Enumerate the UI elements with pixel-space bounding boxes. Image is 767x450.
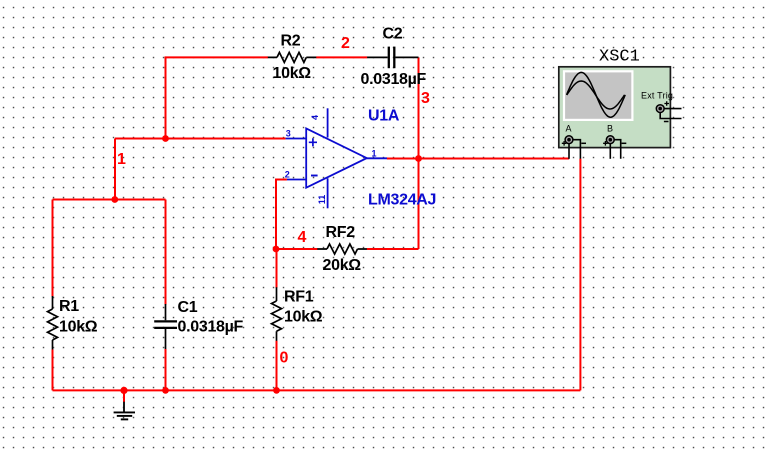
svg-text:C1: C1 bbox=[178, 299, 198, 316]
svg-text:10kΩ: 10kΩ bbox=[59, 319, 98, 336]
svg-text:2: 2 bbox=[285, 170, 290, 180]
wire R1 bottom bbox=[52, 350, 54, 391]
capacitor C1 bbox=[154, 299, 243, 350]
svg-text:3: 3 bbox=[421, 90, 430, 107]
svg-text:U1A: U1A bbox=[368, 108, 400, 125]
svg-text:A: A bbox=[566, 124, 572, 134]
junction node1 lower bbox=[111, 196, 118, 203]
wire RF2 left red bbox=[276, 248, 318, 250]
svg-text:RF1: RF1 bbox=[284, 289, 314, 306]
svg-text:11: 11 bbox=[317, 195, 327, 205]
resistor RF2 bbox=[317, 224, 367, 274]
svg-text:3: 3 bbox=[286, 129, 291, 139]
svg-text:1: 1 bbox=[372, 149, 377, 159]
junction net4 bbox=[273, 246, 280, 253]
wire C1 top bbox=[165, 200, 167, 305]
terminal B plus minus bbox=[603, 141, 608, 146]
svg-text:0: 0 bbox=[280, 350, 289, 367]
scope screen bbox=[563, 70, 634, 121]
wire +input bbox=[115, 138, 286, 140]
op-amp U1A bbox=[285, 108, 436, 209]
svg-text:0.0318µF: 0.0318µF bbox=[178, 319, 244, 336]
junction net3 output bbox=[415, 155, 422, 162]
junction node1-R2 bbox=[162, 135, 169, 142]
svg-text:10kΩ: 10kΩ bbox=[273, 65, 312, 82]
junction C1 bottom bbox=[162, 387, 169, 394]
svg-text:B: B bbox=[607, 124, 613, 134]
wire C1 bottom bbox=[165, 349, 167, 390]
svg-text:1: 1 bbox=[117, 151, 126, 168]
svg-text:2: 2 bbox=[341, 35, 350, 52]
wire RF1 bottom bbox=[276, 341, 278, 391]
resistor R2 bbox=[268, 32, 317, 82]
svg-text:C2: C2 bbox=[383, 25, 403, 42]
wire RF2 right to net3 bbox=[367, 248, 419, 250]
svg-text:0.0318µF: 0.0318µF bbox=[361, 71, 427, 88]
svg-text:LM324AJ: LM324AJ bbox=[368, 192, 436, 209]
svg-text:10kΩ: 10kΩ bbox=[284, 309, 323, 326]
terminal A plus minus bbox=[562, 141, 567, 146]
svg-text:Ext Trig: Ext Trig bbox=[641, 91, 673, 101]
wire output bbox=[387, 158, 569, 160]
wire -input to RF2 bbox=[276, 180, 287, 250]
Ext Trig terminal bbox=[656, 105, 664, 113]
wire net3 vertical bbox=[418, 57, 420, 249]
scope trace 1 bbox=[567, 72, 626, 117]
svg-text:R2: R2 bbox=[281, 32, 301, 49]
oscilloscope XSC1 bbox=[559, 48, 682, 159]
wire net2 left: R2 left lead up-over from +input junction bbox=[166, 57, 269, 139]
terminal A bbox=[565, 136, 573, 144]
wire bottom of node1 bbox=[53, 199, 166, 201]
terminal B bbox=[606, 136, 614, 144]
terminal B stubs bbox=[614, 140, 621, 159]
wire node1 vertical bbox=[114, 139, 116, 200]
wire R1 top bbox=[52, 200, 54, 297]
svg-text:XSC1: XSC1 bbox=[599, 48, 640, 67]
svg-text:20kΩ: 20kΩ bbox=[323, 257, 362, 274]
scope trace 2 bbox=[567, 81, 625, 109]
svg-text:R1: R1 bbox=[59, 298, 79, 315]
Ext Trig stubs bbox=[664, 108, 682, 110]
junction RF1 bottom bbox=[273, 387, 280, 394]
wire net 2 bbox=[316, 56, 367, 58]
wire ground bus bbox=[53, 389, 581, 391]
capacitor C2 bbox=[361, 25, 427, 88]
terminal A stubs bbox=[573, 140, 581, 159]
resistor RF1 bbox=[272, 287, 323, 341]
wire scope A minus down bbox=[579, 159, 581, 391]
svg-text:4: 4 bbox=[298, 229, 307, 246]
Ext Trig plus minus bbox=[664, 101, 669, 106]
ground bbox=[114, 390, 135, 419]
junction ground bbox=[120, 387, 127, 394]
resistor R1 bbox=[48, 296, 98, 350]
svg-text:4: 4 bbox=[310, 115, 320, 120]
scope body bbox=[559, 67, 671, 148]
svg-text:RF2: RF2 bbox=[326, 224, 356, 241]
wire RF1 top bbox=[276, 249, 278, 288]
